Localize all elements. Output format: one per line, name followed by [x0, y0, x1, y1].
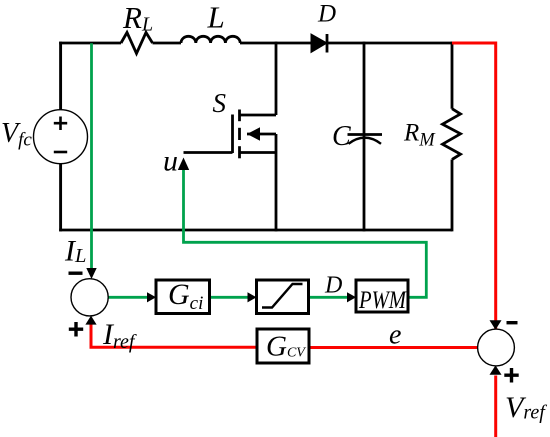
arrow Vref into right sum	[490, 365, 502, 374]
svg-text:D: D	[324, 273, 342, 299]
inductor L	[181, 36, 240, 43]
wire red error e (right sum to Gcv)	[309, 346, 478, 349]
wire red Iref (Gcv to left sum)	[91, 324, 257, 347]
arrow IL into left sum	[86, 268, 96, 279]
voltage source Vfc	[34, 110, 88, 164]
arrow u into gate	[178, 158, 189, 171]
block saturation limiter	[257, 280, 309, 314]
label minus right sum	[507, 321, 518, 324]
wire drain vertical	[275, 42, 278, 115]
green wire left sum to Gci	[109, 296, 151, 299]
arrow into PWM	[347, 292, 356, 302]
svg-text:e: e	[389, 320, 401, 351]
summing junction right	[478, 329, 515, 366]
summing junction left	[71, 279, 108, 316]
green wire PWM to gate u	[184, 170, 427, 298]
diode D	[311, 34, 327, 53]
svg-text:D: D	[317, 1, 336, 28]
arrow output sense into right sum	[490, 320, 502, 329]
arrow Iref into left sum	[85, 316, 96, 325]
svg-text:PWM: PWM	[358, 287, 407, 314]
wire left vertical (Vfc branch)	[59, 42, 62, 232]
svg-text:u: u	[163, 145, 178, 178]
block Gcv (voltage controller)	[257, 329, 309, 363]
resistor RL	[121, 33, 153, 54]
transistor S (MOSFET)	[233, 110, 277, 159]
svg-text:L: L	[207, 0, 225, 35]
arrow into Gci	[147, 292, 156, 302]
block Gci (current controller)	[156, 278, 210, 314]
svg-text:S: S	[213, 88, 227, 118]
green wire IL sense	[90, 43, 93, 268]
green wire saturation to PWM	[309, 296, 350, 299]
wire red Vref input	[494, 376, 497, 437]
wire red output sense (top right)	[452, 43, 496, 330]
svg-text:C: C	[332, 121, 351, 152]
wire bottom rail	[59, 229, 452, 232]
resistor RM	[443, 42, 461, 232]
wire source vertical	[275, 134, 278, 231]
green wire Gci to saturation	[210, 296, 251, 299]
label plus left sum	[69, 322, 83, 337]
label minus left sum	[69, 272, 83, 275]
block PWM	[356, 280, 408, 314]
capacitor C	[348, 42, 383, 232]
wire top rail	[59, 42, 452, 45]
wire gate lead	[184, 151, 233, 154]
arrow into saturation	[248, 292, 257, 302]
label plus right sum	[504, 368, 518, 383]
